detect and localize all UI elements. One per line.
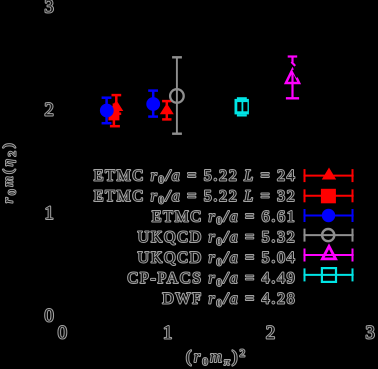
svg-text:0: 0 [45,307,54,327]
svg-text:3: 3 [45,0,54,17]
svg-text:3: 3 [365,324,374,344]
svg-text:DWF r0/a = 4.28: DWF r0/a = 4.28 [162,291,296,310]
svg-text:0: 0 [58,324,67,344]
svg-text:1: 1 [45,204,54,224]
svg-text:(r0mπ)2: (r0mπ)2 [186,347,247,368]
svg-text:ETMC r0/a = 5.22 L = 32: ETMC r0/a = 5.22 L = 32 [94,188,297,207]
svg-text:2: 2 [45,100,54,120]
svg-text:2: 2 [266,324,275,344]
svg-text:ETMC r0/a = 6.61: ETMC r0/a = 6.61 [152,208,297,227]
svg-text:1: 1 [163,324,172,344]
svg-text:ETMC r0/a = 5.22 L = 24: ETMC r0/a = 5.22 L = 24 [94,167,297,186]
svg-text:CP-PACS r0/a = 4.49: CP-PACS r0/a = 4.49 [128,270,297,289]
